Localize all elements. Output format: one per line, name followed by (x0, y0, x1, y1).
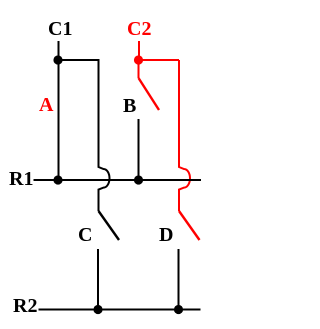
svg-text:R2: R2 (13, 295, 37, 317)
svg-text:C2: C2 (127, 18, 151, 40)
svg-text:A: A (39, 94, 54, 116)
svg-text:C1: C1 (48, 18, 72, 40)
svg-text:D: D (159, 224, 173, 246)
svg-text:R1: R1 (9, 168, 33, 190)
svg-text:C: C (78, 224, 92, 246)
svg-text:B: B (123, 95, 136, 117)
